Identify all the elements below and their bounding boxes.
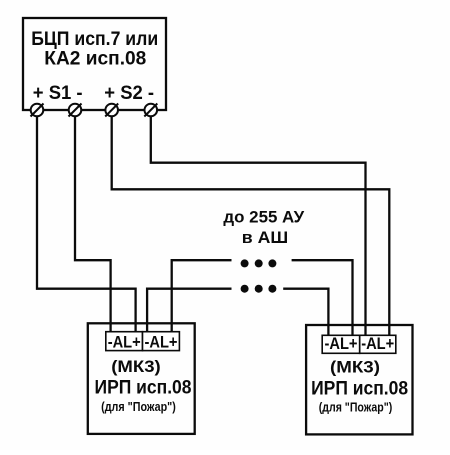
ellipsis dots upper row — [241, 259, 277, 267]
svg-text:(МК3): (МК3) — [111, 357, 161, 376]
wire loop bus lower right to device2 AL1- — [283, 289, 328, 336]
svg-text:-AL+: -AL+ — [325, 334, 358, 353]
svg-text:ИРП исп.08: ИРП исп.08 — [95, 378, 192, 399]
device D1 terminal block AL1 — [106, 332, 143, 352]
wire device1 AL2- to loop bus lower left — [147, 289, 231, 332]
wire S2- to device2 AL2- — [151, 117, 366, 336]
device D1 ИРП box — [88, 323, 195, 434]
wire device1 AL2+ to loop bus upper left — [172, 260, 232, 332]
device D1 terminal block AL2 — [143, 332, 180, 352]
svg-text:КА2 исп.08: КА2 исп.08 — [44, 49, 146, 70]
device D2 ИРП box — [306, 325, 412, 434]
svg-text:-AL+: -AL+ — [145, 333, 178, 352]
wire S2+ to device2 AL2+ — [112, 117, 390, 336]
svg-text:+ S1 -: + S1 - — [33, 83, 83, 104]
svg-text:в АШ: в АШ — [242, 229, 288, 247]
svg-text:-AL+: -AL+ — [361, 334, 394, 353]
terminal S1 minus — [69, 104, 82, 117]
svg-text:(для "Пожар"): (для "Пожар") — [101, 399, 176, 414]
svg-text:до 255 АУ: до 255 АУ — [223, 209, 304, 227]
svg-text:БЦП исп.7 или: БЦП исп.7 или — [31, 29, 158, 50]
terminal S2 minus — [144, 104, 157, 117]
wire S1- to device1 AL1- — [75, 117, 111, 333]
device D2 terminal block AL1 — [322, 334, 360, 353]
ellipsis dots lower row — [241, 285, 277, 293]
svg-text:-AL+: -AL+ — [108, 333, 141, 352]
wire S1+ to device1 AL1+ — [37, 117, 136, 333]
device D2 terminal block AL2 — [360, 334, 396, 353]
svg-text:ИРП исп.08: ИРП исп.08 — [311, 379, 408, 400]
panel U1 БЦП/КА2 box — [23, 18, 166, 110]
svg-text:(МК3): (МК3) — [330, 358, 380, 377]
terminal S1 plus — [31, 104, 44, 117]
terminal S2 plus — [105, 104, 118, 117]
svg-text:(для "Пожар"): (для "Пожар") — [319, 400, 393, 415]
svg-text:+ S2 -: + S2 - — [104, 83, 154, 104]
wire loop bus upper right to device2 AL1+ — [292, 260, 353, 335]
